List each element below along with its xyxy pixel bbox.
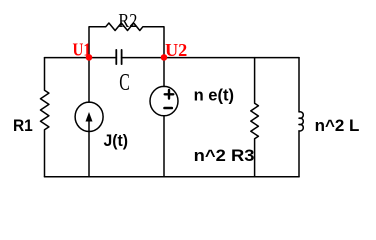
wire current source bottom <box>88 131 90 176</box>
wire top segment right of capacitor <box>122 57 299 59</box>
node U2 dot <box>161 54 168 61</box>
resistor R2 (top branch with wires) <box>89 23 164 58</box>
inductor n^2 L (right branch with wires) <box>299 58 303 177</box>
capacitor C right plate <box>121 50 123 64</box>
svg-text:R1: R1 <box>13 117 33 135</box>
capacitor C left plate <box>115 50 117 64</box>
svg-text:n e(t): n e(t) <box>194 86 234 104</box>
node U1 dot <box>86 54 93 61</box>
svg-text:n^2 R3: n^2 R3 <box>194 147 255 165</box>
resistor R3 (middle-right branch with wires) <box>251 58 259 177</box>
voltage source minus sign <box>165 107 172 110</box>
svg-text:U2: U2 <box>165 40 187 60</box>
wire voltage source bottom <box>163 116 165 177</box>
current source arrowhead <box>86 112 93 122</box>
voltage source plus sign <box>165 90 174 99</box>
voltage source n e(t) circle <box>150 86 178 115</box>
svg-text:n^2 L: n^2 L <box>315 117 360 135</box>
current source J(t) circle <box>75 102 103 131</box>
svg-text:R2: R2 <box>118 10 137 32</box>
wire U1 to current source top <box>88 58 90 103</box>
wire U2 to voltage source top <box>163 58 165 87</box>
wire top segment left of capacitor <box>45 57 117 59</box>
svg-text:J(t): J(t) <box>104 132 129 150</box>
resistor R1 (left branch with wires) <box>41 58 49 177</box>
current source arrow shaft <box>88 121 90 131</box>
svg-text:C: C <box>119 69 130 96</box>
svg-text:U1: U1 <box>73 40 91 60</box>
wire bottom rail <box>45 176 300 178</box>
